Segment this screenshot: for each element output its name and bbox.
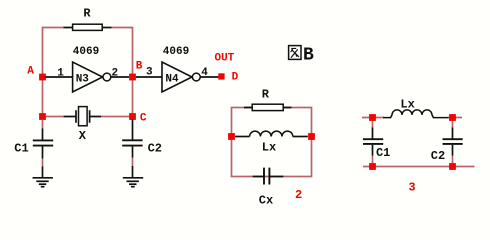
capacitor C1 (left circuit) xyxy=(33,140,53,145)
inverter N3 xyxy=(73,62,111,92)
wire: circuit 3 top rail right xyxy=(448,117,462,119)
svg-text:A: A xyxy=(27,66,34,78)
wire: top-left node down to C1 xyxy=(372,121,374,139)
svg-text:N4: N4 xyxy=(165,74,179,86)
svg-text:C2: C2 xyxy=(431,149,445,163)
wire: C2 down to bottom rail xyxy=(452,145,454,164)
wire: left top rail from node A up and right to resistor R xyxy=(43,28,65,76)
wire: C1 down to bottom rail xyxy=(372,145,374,164)
wire: C2 to ground xyxy=(132,147,134,178)
svg-text:C1: C1 xyxy=(376,146,390,160)
inductor Lx (circuit 2) xyxy=(235,131,308,136)
node A xyxy=(39,74,46,81)
ground (under C2) xyxy=(123,178,143,187)
capacitor C2 (circuit 3) xyxy=(443,139,463,144)
resistor R (left circuit) xyxy=(64,24,112,30)
capacitor C2 (left circuit) xyxy=(122,140,142,145)
svg-text:C1: C1 xyxy=(14,142,28,156)
svg-text:Lx: Lx xyxy=(262,141,276,155)
svg-text:N3: N3 xyxy=(76,74,90,86)
wire: circuit 3 bottom rail xyxy=(363,166,475,168)
wire: circuit 3 top rail left xyxy=(362,117,384,119)
inductor Lx (circuit 3) xyxy=(383,110,449,118)
wire: node B vertical down to node C xyxy=(132,79,134,114)
wire: node B to N4 input xyxy=(136,76,162,78)
wire: node C down to C2 xyxy=(132,120,134,141)
wire: circuit 2 tank loop xyxy=(232,108,312,177)
svg-text:R: R xyxy=(83,7,91,21)
node: circuit 2 right junction xyxy=(308,133,315,140)
node: circuit 3 top-right xyxy=(449,114,456,121)
ground (under C1) xyxy=(33,178,53,187)
wire: top-right node down to C2 xyxy=(452,121,454,139)
svg-text:R: R xyxy=(262,88,270,102)
wire: crystal junction down to C1 xyxy=(42,120,44,129)
caption 图B xyxy=(289,45,314,65)
wire: N3 output to node B xyxy=(111,76,129,78)
svg-text:Lx: Lx xyxy=(400,98,414,112)
svg-text:C: C xyxy=(140,113,147,125)
crystal X xyxy=(64,107,101,126)
terminal node D xyxy=(218,73,224,79)
svg-text:1: 1 xyxy=(57,68,64,80)
svg-text:X: X xyxy=(79,129,87,143)
wire: top rail right of resistor down to node B xyxy=(111,28,133,76)
wire: node A to N3 input xyxy=(46,76,73,78)
node C xyxy=(129,113,136,120)
svg-text:OUT: OUT xyxy=(214,53,234,65)
wire: C1 to ground xyxy=(42,147,44,178)
inverter N4 xyxy=(162,62,200,92)
svg-text:3: 3 xyxy=(408,181,415,195)
resistor R (circuit 2) xyxy=(244,104,291,110)
svg-text:B: B xyxy=(303,45,314,65)
capacitor Cx xyxy=(253,168,284,185)
capacitor C1 (circuit 3) xyxy=(363,139,383,144)
wire: node A vertical down to crystal junction xyxy=(42,79,44,114)
svg-text:D: D xyxy=(232,72,239,84)
node: circuit 3 bottom-right xyxy=(449,163,456,170)
svg-text:2: 2 xyxy=(295,188,302,202)
wire: crystal left lead (red) xyxy=(46,116,64,118)
node: circuit 3 bottom-left xyxy=(369,163,376,170)
node: crystal left junction xyxy=(39,113,46,120)
node: circuit 2 left junction xyxy=(228,133,235,140)
node: circuit 3 top-left xyxy=(369,114,376,121)
wire: crystal right lead (red) xyxy=(101,116,129,118)
svg-text:4069: 4069 xyxy=(73,46,99,58)
svg-text:4069: 4069 xyxy=(163,46,189,58)
svg-text:B: B xyxy=(136,61,143,73)
svg-text:C2: C2 xyxy=(148,142,162,156)
svg-text:Cx: Cx xyxy=(259,194,273,208)
node B xyxy=(129,74,136,81)
wire: N4 output to terminal D xyxy=(200,76,219,78)
